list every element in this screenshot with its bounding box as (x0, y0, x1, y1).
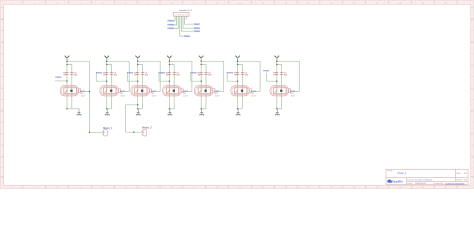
ground block2 (105, 109, 110, 116)
driver block 6 (231, 56, 260, 110)
net label PWM5 (193, 30, 200, 33)
frame ticks left/right (1, 8, 474, 168)
net label wire block3 (127, 73, 138, 82)
svg-text:2024-05-02: 2024-05-02 (415, 183, 427, 185)
outer frame line (1, 1, 474, 189)
net label PWM3 (167, 27, 174, 30)
net label wire block6 (227, 73, 238, 82)
frame ticks top/bottom (23, 1, 457, 188)
wire tap block3 to CN2 (126, 105, 143, 132)
net label wire block2 (96, 73, 107, 82)
svg-text:Sheet_1: Sheet_1 (398, 172, 408, 175)
net label wire block7 (266, 73, 277, 82)
rail extension block1 (90, 92, 104, 133)
ground block6 (236, 109, 241, 116)
EasyEDA logo (387, 179, 403, 183)
net label wire block1 (55, 80, 67, 82)
wire pin7 (185, 16, 194, 24)
svg-text:PWM4: PWM4 (159, 71, 166, 74)
svg-text:PWM3: PWM3 (127, 72, 134, 74)
driver block 3 (131, 56, 160, 110)
svg-text:PWM6: PWM6 (227, 72, 234, 74)
ground block1 (77, 109, 82, 116)
svg-text:Your Company: Your Company (418, 178, 433, 181)
svg-text:PWM6: PWM6 (194, 28, 201, 30)
wire pin1 (173, 16, 175, 21)
net label PWM7 (193, 23, 200, 26)
wire pin4 (180, 16, 183, 36)
wire ground jog block1 (72, 108, 79, 110)
svg-text:1 2 3 4 5 6 7 8: 1 2 3 4 5 6 7 8 (175, 14, 189, 16)
title block box (386, 169, 468, 184)
svg-text:Motor_1: Motor_1 (103, 127, 113, 130)
net label wire block4 (159, 73, 170, 82)
svg-text:PWM2: PWM2 (96, 72, 103, 74)
net label PWM6 (193, 27, 200, 30)
ground block7 (275, 109, 280, 116)
driver block 7 (270, 56, 299, 110)
svg-text:PWM3: PWM3 (168, 28, 175, 30)
svg-text:PWM1: PWM1 (55, 77, 62, 79)
connector CN1 motor (102, 130, 107, 136)
svg-text:REV:: REV: (456, 173, 461, 175)
svg-text:Sheet:: Sheet: (456, 178, 463, 181)
connector CN2 motor (142, 130, 147, 136)
svg-text:PWM7: PWM7 (194, 24, 201, 26)
ground block3 (136, 109, 141, 116)
driver block 5 (194, 56, 223, 110)
svg-text:Motor_2: Motor_2 (142, 127, 152, 130)
net label PWM1 (167, 20, 174, 23)
svg-text:PWM5: PWM5 (190, 72, 197, 74)
net label wire block5 (191, 73, 202, 82)
svg-text:PWM4: PWM4 (184, 35, 191, 38)
driver block 1 (60, 56, 89, 110)
frame numerals (1, 2, 473, 189)
ground block5 (199, 109, 204, 116)
driver block 4 (163, 56, 192, 110)
wire pin6 (183, 16, 193, 28)
net label PWM4 (183, 35, 190, 38)
connector J1 body (174, 12, 190, 16)
wire pin5 (181, 16, 193, 31)
svg-text:PWM5: PWM5 (194, 31, 201, 33)
wire pin2 (173, 16, 177, 25)
page background (0, 0, 474, 189)
ground block4 (168, 109, 173, 116)
svg-text:PWM7: PWM7 (263, 70, 270, 72)
driver block 2 (100, 56, 129, 110)
svg-text:EasyEDA: EasyEDA (392, 180, 403, 184)
inner canvas (4, 4, 471, 185)
svg-text:PWM2: PWM2 (168, 24, 175, 26)
svg-text:TITLE:: TITLE: (387, 170, 393, 172)
svg-text:PWM1: PWM1 (168, 21, 175, 23)
svg-text:Drawn By:: Drawn By: (434, 182, 444, 185)
svg-text:Date:: Date: (407, 182, 413, 185)
wire pin8 (185, 16, 187, 19)
wire pin3 (173, 16, 178, 28)
net label PWM2 (167, 23, 174, 26)
svg-text:Company:: Company: (407, 179, 417, 181)
svg-text:Header-Male-2.54_1x8: Header-Male-2.54_1x8 (179, 9, 192, 12)
